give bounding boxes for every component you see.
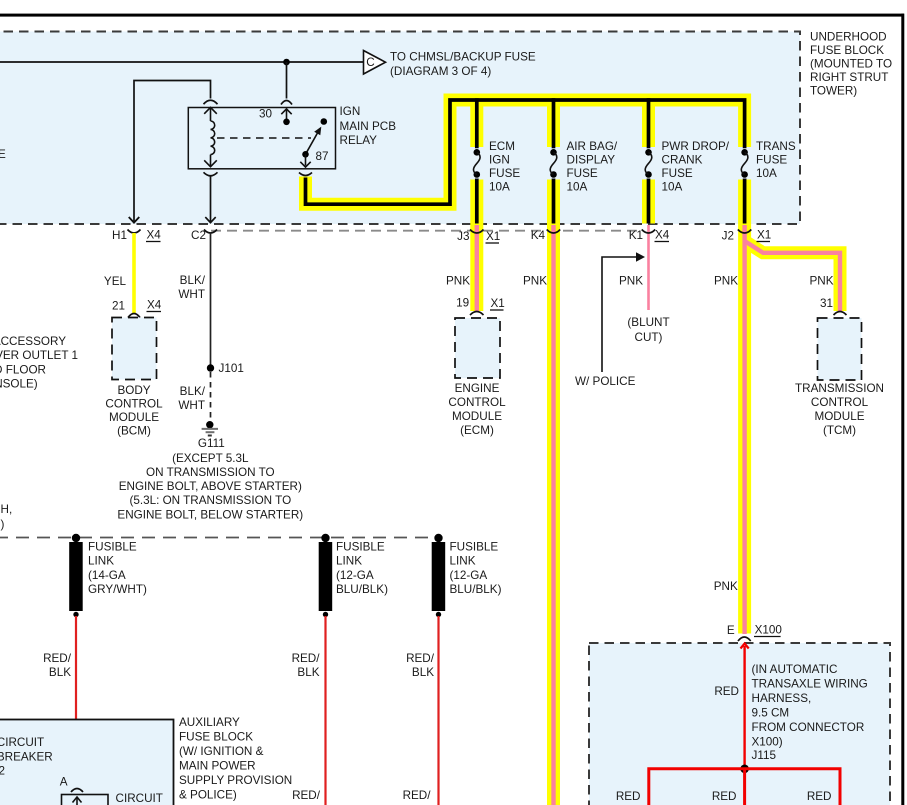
svg-text:BLU/BLK): BLU/BLK) <box>336 583 388 596</box>
svg-text:X100): X100) <box>752 736 783 749</box>
svg-text:FUSE: FUSE <box>567 167 598 180</box>
svg-text:X4: X4 <box>655 229 670 242</box>
fuse F2 AIR BAG/DISPLAY FUSE 10A <box>550 140 618 194</box>
svg-text:(DIAGRAM 3 OF 4): (DIAGRAM 3 OF 4) <box>390 65 491 78</box>
svg-text:19: 19 <box>456 297 469 310</box>
wire RED into transaxle box <box>714 644 748 769</box>
wire BLK/WHT dashed J101 to G111 <box>178 372 210 420</box>
svg-text:LINK: LINK <box>450 555 476 568</box>
relay coil <box>204 100 218 176</box>
svg-text:BLK/: BLK/ <box>180 385 206 398</box>
svg-text:(BLUNT: (BLUNT <box>627 316 669 329</box>
svg-text:CONTROL: CONTROL <box>105 398 163 411</box>
svg-text:CUT): CUT) <box>635 331 663 344</box>
engine control module ECM box <box>448 318 506 437</box>
svg-text:(EXCEPT 5.3L: (EXCEPT 5.3L <box>172 452 249 465</box>
svg-text:C: C <box>366 56 374 69</box>
svg-text:10A: 10A <box>489 181 510 194</box>
relay pin 30 <box>259 101 292 126</box>
svg-text:H1: H1 <box>112 229 127 242</box>
svg-text:9.5 CM: 9.5 CM <box>752 707 790 720</box>
svg-text:CIRCUIT: CIRCUIT <box>0 736 44 749</box>
svg-text:WHT: WHT <box>178 288 205 301</box>
label PNK J2 wire <box>714 275 738 288</box>
auxiliary fuse block box <box>0 720 174 805</box>
svg-text:FUSE: FUSE <box>662 167 693 180</box>
svg-text:PNK: PNK <box>809 275 833 288</box>
connector C triangle <box>364 51 386 75</box>
svg-text:PNK: PNK <box>714 580 738 593</box>
svg-text:LINK: LINK <box>88 555 114 568</box>
svg-text:IGN: IGN <box>489 154 510 167</box>
svg-text:K1: K1 <box>629 229 643 242</box>
svg-text:RED/: RED/ <box>43 652 72 665</box>
label PNK J3 wire <box>446 275 470 288</box>
svg-text:PNK: PNK <box>714 275 738 288</box>
svg-text:87: 87 <box>316 150 329 163</box>
label: to CHMSL/backup fuse <box>390 51 536 78</box>
svg-text:ACCESSORY: ACCESSORY <box>0 335 66 348</box>
pin 21 X4 BCM <box>112 299 162 318</box>
svg-text:TRANS: TRANS <box>756 140 796 153</box>
fusible link FL3 <box>432 534 502 617</box>
connector K4 <box>531 229 560 242</box>
pin 31 TCM <box>820 297 847 315</box>
inner gray dashed boundary <box>211 230 641 232</box>
svg-text:MAIN PCB: MAIN PCB <box>340 120 397 133</box>
svg-text:RED: RED <box>807 790 832 803</box>
svg-text:BLU/BLK): BLU/BLK) <box>450 583 502 596</box>
label PNK K1 wire <box>619 275 643 288</box>
svg-text:X4: X4 <box>147 229 162 242</box>
svg-text:FUSIBLE: FUSIBLE <box>336 541 385 554</box>
svg-text:IGN: IGN <box>340 105 361 118</box>
svg-text:PNK: PNK <box>619 275 643 288</box>
connector E X100 <box>727 624 782 642</box>
svg-text:RED/: RED/ <box>292 789 321 802</box>
svg-text:SUPPLY PROVISION: SUPPLY PROVISION <box>179 774 292 787</box>
node J115 <box>740 765 749 774</box>
pink wire cores <box>477 225 840 805</box>
svg-text:FUSIBLE: FUSIBLE <box>88 541 137 554</box>
svg-text:CIRCUIT: CIRCUIT <box>116 792 163 805</box>
underhood fuse block <box>0 32 800 225</box>
label PNK K4 wire <box>523 275 547 288</box>
traced circuit black core <box>306 98 745 223</box>
svg-text:X4: X4 <box>147 299 162 312</box>
svg-text:BLK/: BLK/ <box>180 274 206 287</box>
label PNK J2 wire lower <box>714 580 738 593</box>
svg-text:C2: C2 <box>191 229 206 242</box>
svg-text:BODY: BODY <box>117 384 150 397</box>
svg-text:WHT: WHT <box>178 399 205 412</box>
svg-text:RED/: RED/ <box>403 789 432 802</box>
svg-text:NSOLE): NSOLE) <box>0 378 38 391</box>
svg-text:FUSE BLOCK: FUSE BLOCK <box>810 44 884 57</box>
label PNK TCM branch <box>809 275 833 288</box>
label: relay <box>340 105 397 147</box>
svg-text:PNK: PNK <box>446 275 470 288</box>
svg-text:DISPLAY: DISPLAY <box>567 154 616 167</box>
svg-text:X1: X1 <box>486 230 500 243</box>
left cut text fragments <box>1 503 13 531</box>
svg-text:K4: K4 <box>531 229 546 242</box>
label RED left branch <box>616 790 641 803</box>
relay pin 87 <box>299 150 329 176</box>
transmission control module TCM box <box>795 318 884 437</box>
svg-text:ON TRANSMISSION TO: ON TRANSMISSION TO <box>146 466 275 479</box>
label RED right branch <box>807 790 832 803</box>
svg-text:AUXILIARY: AUXILIARY <box>179 716 240 729</box>
svg-text:& POLICE): & POLICE) <box>179 789 237 802</box>
circuit breaker symbol box <box>62 792 163 805</box>
connector K1 X4 <box>629 229 670 243</box>
fusible link FL2 <box>319 534 388 617</box>
svg-text:W/ POLICE: W/ POLICE <box>575 375 636 388</box>
fuse F4 TRANS FUSE 10A <box>741 140 796 180</box>
svg-text:RED: RED <box>714 685 739 698</box>
relay box IGN MAIN PCB RELAY <box>188 108 335 169</box>
node J101 <box>207 362 244 375</box>
label: circuit breaker (cut) <box>0 736 53 778</box>
svg-text:2: 2 <box>0 765 5 778</box>
svg-text:FUSIBLE: FUSIBLE <box>450 541 499 554</box>
svg-text:X100: X100 <box>755 624 783 637</box>
svg-text:FROM CONNECTOR: FROM CONNECTOR <box>752 721 865 734</box>
svg-text:(BCM): (BCM) <box>117 425 151 438</box>
svg-text:(12-GA: (12-GA <box>336 569 374 582</box>
svg-text:FUSE: FUSE <box>756 154 787 167</box>
svg-text:10A: 10A <box>662 181 683 194</box>
svg-text:ENGINE BOLT, BELOW STARTER): ENGINE BOLT, BELOW STARTER) <box>117 509 303 522</box>
svg-text:J115: J115 <box>752 749 777 762</box>
label: underhood fuse block <box>810 31 892 98</box>
page border right <box>901 14 904 805</box>
svg-text:RED: RED <box>712 790 737 803</box>
svg-text:TO CHMSL/BACKUP FUSE: TO CHMSL/BACKUP FUSE <box>390 51 536 64</box>
automatic transaxle harness box <box>589 643 890 805</box>
wire RED/BLK FL2 down <box>292 616 326 805</box>
svg-text:(TCM): (TCM) <box>823 424 856 437</box>
relay dashed actuation link <box>217 137 311 139</box>
svg-text:RIGHT STRUT: RIGHT STRUT <box>810 71 888 84</box>
svg-text:(14-GA: (14-GA <box>88 569 126 582</box>
connector J2 X1 <box>722 229 772 243</box>
bottom dashed feed line <box>0 537 441 539</box>
svg-text:FUSE BLOCK: FUSE BLOCK <box>179 731 253 744</box>
wire to CHMSL/BACKUP fuse <box>0 61 364 63</box>
svg-text:10A: 10A <box>756 167 777 180</box>
svg-text:(5.3L: ON TRANSMISSION TO: (5.3L: ON TRANSMISSION TO <box>129 494 291 507</box>
fuse F3 PWR DROP/CRANK FUSE 10A <box>645 140 730 194</box>
wire YEL H1 to BCM <box>104 233 134 314</box>
wire: junction to relay pin 30 <box>286 62 288 99</box>
label: in automatic transaxle harness <box>752 663 868 762</box>
svg-text:CONTROL: CONTROL <box>811 396 869 409</box>
svg-text:J2: J2 <box>722 230 734 243</box>
svg-text:GRY/WHT): GRY/WHT) <box>88 583 147 596</box>
svg-text:TOWER): TOWER) <box>810 85 857 98</box>
svg-text:CRANK: CRANK <box>662 154 703 167</box>
label RED center branch <box>712 790 737 803</box>
connector H1 X4 <box>112 217 161 242</box>
svg-text:A: A <box>60 776 68 789</box>
ground G111 <box>198 421 225 450</box>
svg-text:G111: G111 <box>198 437 225 450</box>
svg-text:): ) <box>1 518 5 531</box>
svg-text:VER OUTLET 1: VER OUTLET 1 <box>0 349 78 362</box>
svg-text:ENGINE BOLT, ABOVE STARTER): ENGINE BOLT, ABOVE STARTER) <box>119 480 302 493</box>
svg-text:BLK: BLK <box>412 666 434 679</box>
fuse F1 ECM IGN FUSE 10A <box>473 140 520 194</box>
pin A circuit breaker <box>60 776 83 793</box>
svg-text:LINK: LINK <box>336 555 362 568</box>
svg-text:RED/: RED/ <box>292 652 321 665</box>
svg-text:X1: X1 <box>757 229 771 242</box>
connector C2 <box>191 176 217 242</box>
svg-text:MODULE: MODULE <box>814 410 864 423</box>
label: blunt cut <box>627 316 669 344</box>
svg-text:RED: RED <box>616 790 641 803</box>
pin 19 X1 ECM <box>456 297 505 316</box>
svg-text:J101: J101 <box>219 362 244 375</box>
svg-text:30: 30 <box>259 108 273 121</box>
svg-text:TRANSMISSION: TRANSMISSION <box>795 382 884 395</box>
traced circuit yellow highlight <box>306 100 841 805</box>
svg-text:(12-GA: (12-GA <box>450 569 488 582</box>
page border top <box>0 14 904 17</box>
svg-text:ENGINE: ENGINE <box>455 382 500 395</box>
svg-text:MODULE: MODULE <box>452 410 502 423</box>
svg-text:YEL: YEL <box>104 275 127 288</box>
svg-text:(ECM): (ECM) <box>460 424 494 437</box>
left cut text fragment E <box>0 148 6 161</box>
svg-text:CONTROL: CONTROL <box>448 396 506 409</box>
svg-text:E: E <box>0 148 6 161</box>
svg-text:21: 21 <box>112 300 125 313</box>
svg-text:31: 31 <box>820 297 833 310</box>
red distribution bus <box>649 769 840 805</box>
svg-text:ECM: ECM <box>489 140 515 153</box>
node: junction on CHMSL wire <box>283 59 290 66</box>
svg-text:RED/: RED/ <box>406 652 435 665</box>
svg-text:X1: X1 <box>491 297 505 310</box>
svg-text:BREAKER: BREAKER <box>0 750 53 763</box>
svg-text:BLK: BLK <box>297 666 319 679</box>
svg-text:PWR DROP/: PWR DROP/ <box>662 140 730 153</box>
svg-text:(MOUNTED TO: (MOUNTED TO <box>810 58 892 71</box>
svg-text:RELAY: RELAY <box>340 134 378 147</box>
svg-text:H,: H, <box>1 503 13 516</box>
label: auxiliary fuse block <box>179 716 292 802</box>
relay switch blade <box>306 118 328 154</box>
connector J3 X1 <box>457 230 500 244</box>
body control module BCM box <box>105 318 163 438</box>
svg-text:MAIN POWER: MAIN POWER <box>179 760 256 773</box>
svg-text:D FLOOR: D FLOOR <box>0 363 46 376</box>
label: accessory power outlet (cut) <box>0 335 78 391</box>
svg-text:AIR BAG/: AIR BAG/ <box>567 140 618 153</box>
svg-text:(W/ IGNITION &: (W/ IGNITION & <box>179 745 264 758</box>
svg-text:(IN AUTOMATIC: (IN AUTOMATIC <box>752 663 838 676</box>
svg-text:PNK: PNK <box>523 275 547 288</box>
svg-text:MODULE: MODULE <box>109 411 159 424</box>
w/ police arrow to K1 wire <box>575 252 645 388</box>
label: G111 location note <box>117 452 303 522</box>
wire: relay coil top feed to H1 <box>129 81 211 223</box>
wire RED/BLK FL1 to aux block <box>43 616 76 786</box>
svg-text:TRANSAXLE WIRING: TRANSAXLE WIRING <box>752 678 868 691</box>
svg-text:FUSE: FUSE <box>489 167 520 180</box>
svg-text:10A: 10A <box>567 181 588 194</box>
svg-text:UNDERHOOD: UNDERHOOD <box>810 31 887 44</box>
svg-text:BLK: BLK <box>49 666 71 679</box>
svg-text:E: E <box>727 624 735 637</box>
wire BLK/WHT C2 to J101 <box>178 233 210 368</box>
svg-text:HARNESS,: HARNESS, <box>752 692 812 705</box>
svg-text:J3: J3 <box>457 230 469 243</box>
wire RED/BLK FL3 down <box>403 616 439 805</box>
fusible link FL1 <box>69 534 147 617</box>
